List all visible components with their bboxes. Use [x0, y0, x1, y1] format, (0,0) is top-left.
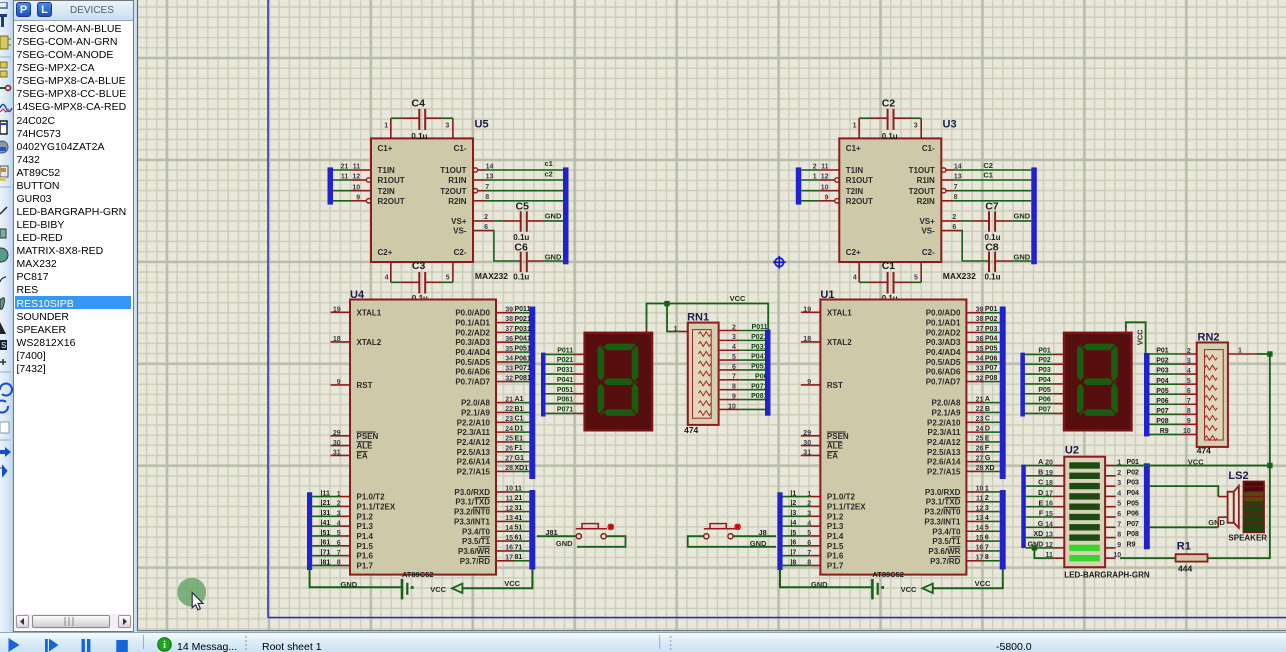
svg-text:444: 444: [1178, 563, 1192, 573]
svg-text:D: D: [1038, 490, 1043, 497]
svg-text:|51: |51: [321, 530, 331, 537]
svg-text:P021: P021: [515, 316, 531, 323]
svg-text:2: 2: [985, 495, 989, 502]
svg-text:12: 12: [1045, 542, 1053, 549]
svg-text:P041: P041: [515, 336, 531, 343]
svg-text:3: 3: [1187, 358, 1191, 365]
MAX232 U3: [796, 109, 1037, 294]
placement cursor green circle: [177, 578, 206, 607]
svg-text:9: 9: [1187, 418, 1191, 425]
svg-text:474: 474: [1197, 445, 1211, 455]
svg-text:21: 21: [515, 495, 523, 502]
svg-text:7: 7: [985, 544, 989, 551]
svg-text:B1: B1: [515, 406, 524, 413]
svg-text:U3: U3: [943, 118, 957, 130]
svg-text:P07: P07: [1038, 406, 1051, 413]
svg-text:2: 2: [1117, 470, 1121, 477]
svg-text:GND: GND: [545, 253, 562, 262]
svg-text:1: 1: [1238, 347, 1242, 354]
svg-text:3: 3: [1117, 480, 1121, 487]
junction at RN1 pin1 drop: [664, 301, 669, 306]
svg-text:81: 81: [515, 554, 523, 561]
svg-text:20: 20: [1045, 460, 1053, 467]
svg-text:P031: P031: [557, 367, 573, 374]
wire: VCC rail U2 pin1 to RN2 drop: [1116, 465, 1270, 467]
svg-text:VCC: VCC: [730, 294, 746, 303]
svg-text:LED-BARGRAPH-GRN: LED-BARGRAPH-GRN: [1064, 570, 1150, 579]
svg-text:5: 5: [1187, 378, 1191, 385]
svg-text:E: E: [1039, 500, 1044, 507]
svg-text:6: 6: [1187, 388, 1191, 395]
svg-text:C1: C1: [882, 260, 896, 272]
svg-text:P071: P071: [515, 365, 531, 372]
svg-text:16: 16: [1045, 501, 1053, 508]
svg-text:|8: |8: [790, 559, 796, 566]
svg-text:|11: |11: [321, 490, 330, 497]
svg-text:G: G: [1038, 521, 1044, 528]
svg-text:2: 2: [1187, 348, 1191, 355]
svg-text:P061: P061: [515, 355, 531, 362]
svg-text:P01: P01: [985, 306, 998, 313]
svg-text:P02: P02: [985, 316, 998, 323]
svg-text:|4: |4: [790, 520, 796, 527]
svg-text:C2: C2: [882, 97, 896, 109]
svg-text:LS2: LS2: [1228, 470, 1248, 482]
svg-text:1: 1: [813, 173, 817, 180]
svg-text:3: 3: [732, 334, 736, 341]
svg-text:|81: |81: [321, 559, 331, 566]
svg-text:|3: |3: [790, 510, 796, 517]
svg-text:1: 1: [985, 485, 989, 492]
junction RN2 pin1: [1267, 351, 1272, 356]
message info icon: [158, 638, 172, 652]
svg-text:17: 17: [1045, 490, 1053, 497]
svg-text:|21: |21: [321, 500, 331, 507]
svg-text:P04: P04: [985, 336, 998, 343]
svg-text:|41: |41: [321, 520, 331, 527]
svg-text:U5: U5: [475, 118, 489, 130]
svg-text:P01: P01: [1156, 348, 1169, 355]
svg-text:C: C: [985, 416, 990, 423]
svg-text:4: 4: [1117, 490, 1121, 497]
svg-text:RN1: RN1: [687, 311, 709, 323]
svg-text:14: 14: [1045, 521, 1053, 528]
svg-text:C4: C4: [412, 97, 426, 109]
svg-text:P06: P06: [985, 355, 998, 362]
svg-text:XD: XD: [985, 465, 995, 472]
svg-text:J81: J81: [545, 528, 558, 537]
mouse pointer: [192, 593, 203, 610]
svg-text:U4: U4: [350, 289, 365, 301]
svg-text:R1: R1: [1177, 541, 1191, 553]
svg-text:61: 61: [515, 535, 523, 542]
svg-text:U1: U1: [820, 289, 834, 301]
svg-text:P07: P07: [985, 365, 998, 372]
svg-text:2: 2: [732, 324, 736, 331]
bus left of RN2: [1144, 353, 1150, 436]
wire: U2 pins 11+12 GND tie: [1034, 548, 1053, 558]
svg-text:18: 18: [1045, 480, 1053, 487]
svg-text:J8: J8: [759, 528, 767, 537]
svg-text:|61: |61: [321, 540, 331, 547]
wire: GND row to speaker bottom: [1150, 526, 1219, 528]
svg-text:P051: P051: [557, 387, 573, 394]
svg-text:21: 21: [341, 163, 349, 170]
svg-text:GND: GND: [1014, 253, 1031, 262]
svg-text:|5: |5: [790, 530, 796, 537]
svg-text:P061: P061: [557, 397, 573, 404]
svg-text:C2: C2: [983, 161, 993, 170]
wire: RN2 pin1 to VCC rail: [1257, 354, 1270, 466]
microcontroller U4 AT89C52: [307, 300, 535, 600]
svg-text:8: 8: [732, 384, 736, 391]
svg-text:4: 4: [732, 344, 736, 351]
svg-text:RN2: RN2: [1198, 331, 1220, 343]
svg-text:P081: P081: [515, 375, 531, 382]
svg-text:|7: |7: [790, 549, 796, 556]
svg-text:0.1u: 0.1u: [411, 132, 427, 141]
svg-text:GND: GND: [750, 539, 767, 548]
svg-text:9: 9: [732, 393, 736, 400]
svg-text:P08: P08: [985, 375, 998, 382]
svg-text:P01: P01: [1038, 347, 1051, 354]
svg-text:5: 5: [985, 525, 989, 532]
wire: right 7seg common anode to bus: [1126, 322, 1146, 353]
svg-text:XD1: XD1: [515, 465, 529, 472]
svg-text:0.1u: 0.1u: [513, 272, 529, 281]
sheet border: [267, 0, 269, 618]
svg-text:3: 3: [985, 505, 989, 512]
resistor R1: [1176, 554, 1208, 561]
step button: [45, 639, 48, 652]
svg-text:P021: P021: [557, 357, 573, 364]
svg-text:10: 10: [1183, 428, 1191, 435]
svg-text:MAX232: MAX232: [943, 271, 976, 281]
svg-text:6: 6: [732, 364, 736, 371]
svg-text:E1: E1: [515, 435, 524, 442]
svg-text:|1: |1: [790, 490, 796, 497]
svg-text:P031: P031: [515, 326, 531, 333]
svg-text:c1: c1: [545, 159, 553, 168]
svg-text:P05: P05: [1156, 388, 1169, 395]
resistor network RN2: [1150, 343, 1257, 447]
origin crosshair marker: [773, 256, 786, 269]
svg-text:10: 10: [728, 403, 736, 410]
svg-text:P08: P08: [1156, 418, 1169, 425]
svg-text:4: 4: [985, 515, 989, 522]
svg-text:11: 11: [341, 173, 349, 180]
svg-text:C6: C6: [514, 242, 528, 254]
grip dots: [245, 636, 247, 650]
panel scrollbar: [15, 614, 132, 629]
svg-text:C8: C8: [985, 242, 999, 254]
svg-text:P041: P041: [557, 377, 573, 384]
svg-text:7: 7: [732, 374, 736, 381]
status bar: [0, 632, 1286, 652]
svg-text:0.1u: 0.1u: [882, 132, 898, 141]
svg-text:D: D: [985, 426, 990, 433]
svg-text:c2: c2: [545, 169, 553, 178]
svg-text:GND: GND: [1014, 211, 1031, 220]
play button: [9, 638, 20, 652]
svg-text:A: A: [985, 396, 990, 403]
svg-text:|31: |31: [321, 510, 331, 517]
svg-text:P07: P07: [1156, 408, 1169, 415]
svg-text:F1: F1: [515, 445, 523, 452]
svg-text:C5: C5: [516, 200, 530, 212]
svg-text:5: 5: [1117, 501, 1121, 508]
resistor network RN1: [677, 323, 765, 425]
svg-text:G: G: [985, 455, 991, 462]
svg-text:B: B: [985, 406, 990, 413]
svg-text:SPEAKER: SPEAKER: [1228, 534, 1267, 543]
svg-text:C1: C1: [515, 416, 524, 423]
svg-text:P03: P03: [985, 326, 998, 333]
svg-text:6: 6: [1117, 511, 1121, 518]
svg-text:E: E: [985, 435, 990, 442]
svg-text:F: F: [1039, 511, 1044, 518]
svg-text:9: 9: [1117, 542, 1121, 549]
svg-text:G1: G1: [515, 455, 524, 462]
junction VCC rail: [1267, 463, 1272, 468]
wire: U2 pin10 to R1: [1120, 557, 1176, 559]
svg-text:F: F: [985, 445, 990, 452]
svg-text:GND: GND: [1208, 518, 1225, 527]
wire: junction down to RN1 pin 1: [667, 304, 677, 332]
svg-text:A1: A1: [515, 396, 524, 403]
svg-text:31: 31: [515, 505, 523, 512]
svg-text:|71: |71: [321, 549, 331, 556]
svg-text:P05: P05: [985, 345, 998, 352]
svg-text:8: 8: [1187, 408, 1191, 415]
svg-text:i: i: [163, 640, 166, 651]
speaker LS2: [1218, 481, 1264, 532]
svg-text:P011: P011: [515, 306, 531, 313]
stop button: [116, 640, 128, 652]
svg-text:7: 7: [1187, 398, 1191, 405]
svg-text:71: 71: [515, 544, 523, 551]
7-seg display (right): [1020, 328, 1131, 430]
svg-text:XD: XD: [1033, 531, 1043, 538]
svg-text:P06: P06: [1038, 397, 1051, 404]
svg-text:13: 13: [1045, 532, 1053, 539]
LED bargraph U2: [1026, 457, 1116, 568]
svg-text:P08: P08: [1127, 531, 1140, 538]
svg-text:P02: P02: [1127, 469, 1140, 476]
svg-text:C1: C1: [983, 171, 993, 180]
svg-text:15: 15: [1045, 511, 1053, 518]
7-seg display (left): [541, 328, 652, 430]
svg-text:7: 7: [1117, 521, 1121, 528]
svg-text:51: 51: [515, 525, 523, 532]
svg-text:D1: D1: [515, 426, 524, 433]
left mode toolbar (cropped): [0, 0, 13, 632]
svg-text:P04: P04: [1127, 490, 1140, 497]
svg-text:A: A: [1038, 459, 1043, 466]
svg-text:GND: GND: [556, 539, 573, 548]
svg-text:P071: P071: [557, 406, 573, 413]
svg-text:41: 41: [515, 515, 523, 522]
bus right of RN1: [765, 330, 771, 416]
button J8: [688, 524, 776, 547]
svg-text:P04: P04: [1156, 378, 1169, 385]
svg-text:8: 8: [985, 554, 989, 561]
svg-text:P05: P05: [1038, 387, 1051, 394]
svg-text:MAX232: MAX232: [475, 271, 508, 281]
svg-text:P04: P04: [1038, 377, 1051, 384]
svg-text:5: 5: [732, 354, 736, 361]
svg-text:2: 2: [813, 163, 817, 170]
svg-text:P051: P051: [515, 345, 531, 352]
svg-text:C3: C3: [412, 260, 426, 272]
svg-text:P03: P03: [1038, 367, 1051, 374]
bus right of U2: [1144, 463, 1150, 549]
svg-text:GND: GND: [545, 211, 562, 220]
DEVICES object selector panel: [13, 0, 134, 632]
svg-text:B: B: [1038, 469, 1043, 476]
svg-text:11: 11: [515, 485, 523, 492]
svg-text:P07: P07: [1127, 521, 1140, 528]
svg-text:P02: P02: [1156, 358, 1169, 365]
wire: P03 row to speaker top: [1150, 486, 1219, 497]
svg-text:VCC: VCC: [1136, 329, 1145, 345]
junction U2 GND: [1032, 545, 1037, 550]
svg-text:R9: R9: [1127, 542, 1136, 549]
button J81: [537, 524, 626, 547]
wire: R1 to VCC rail: [1208, 466, 1270, 559]
svg-text:P02: P02: [1038, 357, 1051, 364]
pause button: [82, 639, 85, 652]
svg-text:P011: P011: [557, 347, 573, 354]
svg-text:0.1u: 0.1u: [985, 272, 1001, 281]
svg-text:474: 474: [684, 425, 698, 435]
svg-text:4: 4: [1187, 368, 1191, 375]
svg-text:P06: P06: [1156, 398, 1169, 405]
svg-text:U2: U2: [1065, 445, 1079, 457]
bus left of U2: [1021, 465, 1026, 548]
svg-text:C7: C7: [985, 200, 999, 212]
svg-text:6: 6: [985, 535, 989, 542]
svg-text:P03: P03: [1156, 368, 1169, 375]
svg-text:|2: |2: [790, 500, 796, 507]
wire: 7seg common anode to VCC rail: [647, 304, 769, 331]
svg-text:P03: P03: [1127, 480, 1140, 487]
svg-text:1: 1: [674, 326, 678, 333]
microcontroller U1 AT89C52: [777, 300, 1005, 600]
svg-text:C: C: [1038, 480, 1043, 487]
svg-text:|6: |6: [790, 540, 796, 547]
svg-text:8: 8: [1117, 532, 1121, 539]
svg-text:P06: P06: [1127, 511, 1140, 518]
MAX232 U5: [328, 109, 569, 294]
svg-text:P05: P05: [1127, 500, 1140, 507]
svg-text:19: 19: [1045, 470, 1053, 477]
svg-text:R9: R9: [1160, 428, 1169, 435]
